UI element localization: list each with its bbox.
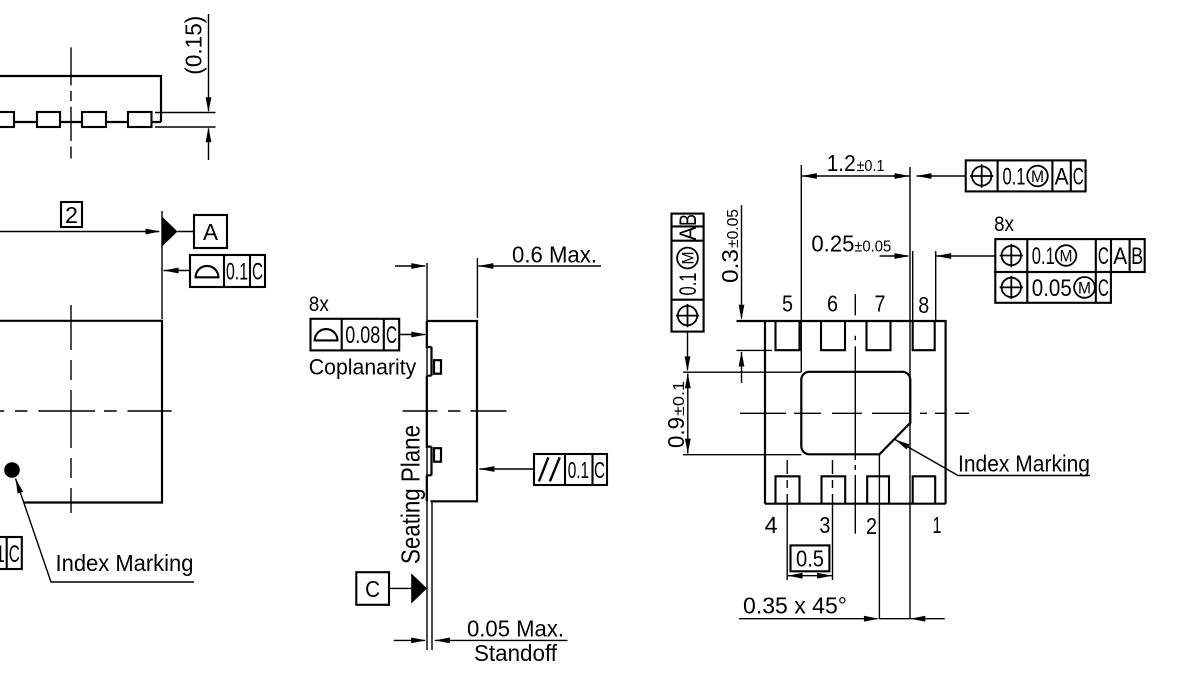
svg-text:Index Marking: Index Marking (958, 451, 1090, 477)
svg-text:A: A (1113, 243, 1127, 270)
svg-text:(0.15): (0.15) (181, 16, 207, 75)
position FCF (A C) frame (966, 160, 1086, 191)
svg-text:0.1: 0.1 (1032, 243, 1055, 270)
parallelism FCF frame (534, 454, 607, 485)
position symbol row2 (1000, 276, 1023, 299)
index marking leader (bottom view) (894, 437, 910, 449)
svg-text:C: C (386, 322, 397, 349)
package bottom surface line (standoff) (431, 501, 433, 650)
svg-text:C: C (365, 576, 380, 602)
dimension 1.2 +-0.1 (801, 175, 910, 177)
svg-text:C: C (594, 457, 605, 483)
svg-text:B: B (675, 214, 702, 226)
body bottom edge (top view) (24, 501, 163, 503)
centerline (side view) (403, 410, 507, 412)
dimension 0.35 x 45 (739, 618, 878, 620)
lead tip 1 (cut) (0, 112, 14, 127)
lead bump lower (434, 448, 441, 462)
dimension 0.9 +-0.1 (687, 374, 689, 454)
standoff dimension (394, 639, 425, 641)
0.6 Max dimension (395, 265, 425, 267)
svg-text:0.1: 0.1 (675, 273, 702, 296)
svg-text:0.05 Max.: 0.05 Max. (467, 616, 564, 642)
svg-text:6: 6 (827, 291, 838, 317)
pin 8 (913, 322, 935, 350)
pin 3 centerline (832, 460, 834, 580)
pin 3 (822, 476, 846, 503)
dimension 0.5 basic (791, 545, 830, 571)
svg-text:Coplanarity: Coplanarity (309, 354, 417, 379)
body top edge (top view) (0, 320, 162, 322)
svg-text:1: 1 (933, 512, 942, 538)
profile FCF arrow (164, 268, 179, 274)
seating plane line (426, 263, 428, 650)
extension line pin8 right (935, 251, 937, 322)
vertical centerline (top view) (70, 305, 72, 513)
note 2 leader arrow (0, 231, 159, 233)
svg-text:C: C (1073, 164, 1084, 191)
extension line pad bottom level (683, 454, 801, 456)
profile of surface symbol (196, 266, 219, 277)
svg-text:M: M (1078, 278, 1091, 297)
lead tip 3 (82, 112, 106, 127)
svg-text:5: 5 (782, 291, 793, 317)
svg-text:1.2: 1.2 (827, 150, 856, 176)
lead bump upper (434, 360, 441, 374)
svg-text:±0.1: ±0.1 (671, 381, 688, 416)
svg-text:0.25: 0.25 (811, 230, 854, 256)
datum C filled triangle (411, 573, 427, 603)
svg-text:0.05: 0.05 (1032, 275, 1072, 302)
svg-text:A: A (1055, 164, 1069, 191)
leader to position FCF (917, 173, 932, 179)
vertical position FCF (A B) frame (672, 214, 704, 332)
position symbol vertical FCF (676, 304, 699, 327)
M circle row2 (1074, 277, 1095, 298)
extension line chamfer bottom (878, 454, 880, 619)
body right edge (top view) (161, 320, 163, 504)
svg-text:0.6 Max.: 0.6 Max. (512, 242, 597, 268)
svg-text:A: A (675, 227, 702, 241)
index marking leader arrow (13, 478, 23, 494)
pin 7 (867, 322, 891, 350)
svg-text:2: 2 (866, 513, 877, 539)
svg-text:7: 7 (875, 291, 886, 317)
pin 5 (776, 322, 800, 350)
position symbol row1 (1000, 244, 1023, 267)
svg-text:±0.05: ±0.05 (725, 209, 742, 248)
svg-text:0.9: 0.9 (663, 417, 689, 448)
pin 6 (821, 322, 845, 350)
lead tabs (side view) (427, 321, 432, 501)
package right edge (944, 320, 946, 504)
pin 1 (913, 476, 936, 503)
lead tip 2 (37, 112, 60, 127)
extension line lead top (155, 112, 216, 114)
svg-text:A: A (203, 219, 219, 245)
note 2 box (61, 202, 82, 227)
index marking dot (4, 462, 20, 478)
svg-text:M: M (679, 252, 698, 265)
body top edge (front view) (0, 75, 162, 77)
position symbol (970, 164, 993, 187)
svg-text:8x: 8x (994, 213, 1014, 236)
datum A filled triangle (162, 217, 178, 247)
vertical centerline (bottom view) (854, 294, 856, 534)
svg-text:3: 3 (819, 512, 830, 538)
datum A extension line (161, 211, 163, 319)
body right edge (front view) (160, 75, 162, 122)
body bottom edge segments between lead tips (14, 121, 161, 123)
datum C box (356, 572, 389, 605)
exposed pad with chamfered corner (801, 372, 910, 455)
M circle (1027, 166, 1048, 187)
extension line pad left (800, 165, 802, 372)
vertical FCF leader arrow (687, 332, 689, 370)
svg-text:C: C (1098, 243, 1109, 270)
svg-text:Index Marking: Index Marking (56, 550, 194, 576)
svg-text:M: M (1060, 247, 1073, 266)
svg-text:0.08: 0.08 (345, 322, 380, 349)
extension line lead bottom (155, 126, 216, 128)
pin 4 centerline (786, 460, 788, 580)
datum A box (194, 215, 227, 248)
package bottom edge (765, 503, 946, 505)
extension line pad top level (683, 371, 801, 373)
parallelism FCF arrow (479, 466, 494, 472)
svg-text:8x: 8x (309, 293, 329, 316)
datum C leader (389, 587, 411, 589)
svg-text:±0.05: ±0.05 (854, 238, 891, 255)
partial FCF (cut off at left edge) (0, 537, 22, 569)
svg-text:C: C (9, 541, 20, 568)
svg-text:Standoff: Standoff (474, 640, 558, 666)
dimension 0.25 +-0.05 (880, 255, 908, 257)
svg-text:0.1: 0.1 (226, 259, 248, 286)
body left edge segments (mold) (430, 347, 432, 475)
svg-text:0.1: 0.1 (1003, 164, 1026, 191)
svg-text:0.1: 0.1 (0, 541, 5, 568)
svg-text:Seating Plane: Seating Plane (396, 425, 426, 564)
package left edge (764, 320, 766, 504)
svg-text:4: 4 (765, 512, 778, 538)
lead tip 4 (128, 112, 152, 127)
pin 2 (867, 476, 889, 503)
svg-text:2: 2 (65, 202, 78, 228)
svg-text:M: M (1031, 167, 1044, 186)
coplanarity FCF arrow (399, 334, 425, 336)
svg-text:B: B (1131, 243, 1143, 270)
package top edge with extension (737, 320, 946, 322)
profile FCF frame (190, 255, 265, 287)
svg-text:0.35 x 45°: 0.35 x 45° (743, 593, 847, 619)
svg-text:0.3: 0.3 (717, 249, 743, 283)
pin 4 (776, 476, 800, 503)
svg-text:0.5: 0.5 (796, 546, 824, 572)
coplanarity FCF frame (311, 319, 400, 351)
svg-text:8: 8 (918, 292, 929, 318)
extension line pin bottom level (736, 349, 772, 351)
body outline (side view) (427, 321, 477, 501)
vertical centerline (front view) (70, 47, 72, 158)
profile of surface symbol (315, 329, 338, 340)
extension line pad right / chamfer top (909, 167, 911, 619)
svg-text:0.1: 0.1 (568, 457, 589, 483)
svg-text:C: C (252, 259, 263, 286)
horizontal centerline (bottom view) (740, 412, 969, 414)
dimension 0.3 +-0.05 (741, 205, 743, 319)
extension line pin8 left (912, 251, 914, 322)
M circle row1 (1056, 245, 1077, 266)
svg-text:±0.1: ±0.1 (857, 158, 885, 175)
M circle vertical FCF (677, 248, 698, 269)
svg-text:C: C (1098, 275, 1109, 302)
dimension (0.15) arrow lines (208, 14, 210, 111)
position FCF 8x two-row frame (995, 239, 1144, 272)
horizontal centerline (top view) (0, 410, 172, 412)
datum A leader (178, 231, 195, 233)
parallelism symbol (539, 457, 560, 481)
